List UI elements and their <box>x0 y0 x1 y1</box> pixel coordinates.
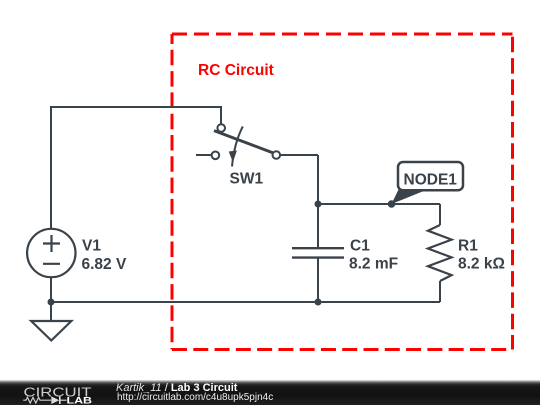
capacitor C1 <box>292 248 344 257</box>
ground <box>31 321 71 341</box>
wire C1 top lead <box>317 204 319 248</box>
voltage source V1 <box>27 229 75 277</box>
junction NODE1 <box>388 200 396 208</box>
node NODE1 callout <box>392 188 426 205</box>
svg-text:SW1: SW1 <box>230 171 264 188</box>
wire switch right lead <box>280 154 318 156</box>
footer bar <box>0 380 540 405</box>
wire bottom horizontal <box>51 301 440 303</box>
wire C1 bottom lead <box>317 258 319 302</box>
svg-text:RC Circuit: RC Circuit <box>198 62 274 79</box>
junction cap bottom <box>315 299 322 306</box>
label R1 value <box>458 238 505 273</box>
svg-text:R1: R1 <box>458 238 478 255</box>
annotation box RC Circuit (dashed red) <box>172 34 513 350</box>
svg-text:NODE1: NODE1 <box>404 171 458 188</box>
resistor R1 <box>428 225 452 281</box>
svg-text:8.2 mF: 8.2 mF <box>349 256 398 273</box>
svg-text:LAB: LAB <box>67 396 93 406</box>
switch arrow <box>232 127 243 167</box>
CircuitLab logo <box>0 380 117 406</box>
svg-text:C1: C1 <box>350 238 370 255</box>
wire R1 top lead <box>439 204 441 225</box>
wire ground node down <box>50 302 52 321</box>
svg-text:8.2 kΩ: 8.2 kΩ <box>458 256 505 273</box>
wire V1 bottom to ground node <box>50 277 52 302</box>
wire R1 bottom lead <box>439 281 441 302</box>
wire down to node <box>317 155 319 204</box>
label V1 value <box>82 238 127 274</box>
switch SW1 <box>196 124 280 159</box>
junction ground node <box>48 299 55 306</box>
svg-text:6.82 V: 6.82 V <box>82 256 127 273</box>
junction node top <box>315 201 322 208</box>
label C1 value <box>349 238 398 273</box>
svg-text:V1: V1 <box>82 238 101 255</box>
wire node horizontal <box>318 203 440 205</box>
wire top horizontal <box>51 107 221 229</box>
